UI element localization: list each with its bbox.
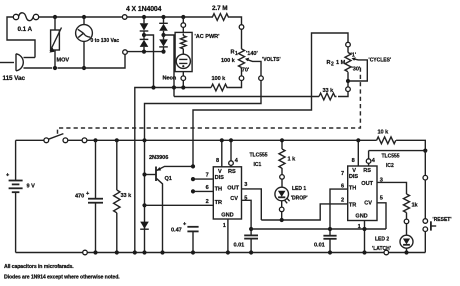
node ground at C2 [191,250,195,254]
terminal R2 bottom [346,87,351,92]
node R2 bottom [346,79,350,83]
node ground at Q1 collector [160,250,164,254]
svg-text:V: V [352,168,356,174]
pin 8 IC1 V+ [216,140,222,167]
note diodes [4,274,120,280]
pin 7 IC1 DIS [193,173,213,179]
wire ground bus y87.5 [135,81,242,253]
svg-text:8: 8 [352,158,355,164]
svg-text:1: 1 [223,223,226,229]
svg-text:Q1: Q1 [165,176,172,182]
node ground at GND1 [226,250,230,254]
svg-text:RS: RS [363,168,371,174]
node AC-bottom at MOV [53,66,57,70]
label 4 X 1N4004 [126,6,162,13]
svg-text:0.1 A: 0.1 A [18,26,33,33]
svg-text:TR: TR [349,203,356,209]
resistor 100 k [211,76,229,91]
node ground at LED2 [404,250,408,254]
varistor MOV [49,17,69,68]
svg-text:TLC555: TLC555 [250,153,268,159]
terminal bridge AC input bottom [123,50,128,55]
resistor R3 33 k left [114,140,133,252]
terminal ground rail right [384,250,389,255]
svg-text:R: R [327,60,331,66]
node ground bus at bridge output [151,85,155,89]
svg-text:100 k: 100 k [212,76,227,82]
svg-text:All capacitors in microfarads.: All capacitors in microfarads. [4,264,74,270]
svg-text:33 k: 33 k [323,88,335,94]
svg-text:IC1: IC1 [254,162,262,168]
node TH1 junction [191,189,195,193]
svg-text:Neon: Neon [163,76,177,82]
terminal LED2 top [404,219,409,224]
wire CV1 bus to IC2 [251,228,386,230]
note capacitors [4,264,74,270]
switch S2 'RESET' pushbutton [423,180,452,253]
resistor 2.7 M [211,5,230,20]
svg-text:2N3906: 2N3906 [149,155,168,161]
resistor R5 10 k [377,130,396,144]
terminal R2 top [346,42,351,47]
LED 1 'DROP' [275,179,308,207]
wire bridge left-mid to ground bus [144,35,154,88]
pin 8 IC2 V+ [352,140,359,166]
pin 4 IC2 RS [366,151,375,166]
node bridge left-top junction [142,15,146,19]
label TLC555 IC2 [382,154,400,170]
svg-text:'AC PWR': 'AC PWR' [195,34,221,40]
node AC-bottom at voltmeter [82,66,86,70]
node ground bus at neon [181,85,185,89]
battery B1 9 V [6,140,35,252]
svg-text:7: 7 [341,171,344,177]
svg-text:'70': '70' [241,68,250,74]
fuse F1 0.1 A [13,13,38,33]
op-amp-timer U1 TLC555 IC1 box [213,167,241,219]
wire R1 wiper line to Q1 base column [145,81,262,253]
node ground at C1 [93,250,97,254]
wiper R2 loop to bottom [350,57,367,81]
svg-text:'VOLTS': 'VOLTS' [262,57,281,63]
diode D1 bridge left-top [140,17,149,35]
svg-text:2.7 M: 2.7 M [212,5,227,12]
terminal neon bottom [163,72,186,88]
svg-text:OUT: OUT [227,185,239,191]
pin 4 IC1 RS [229,140,239,167]
wire bridge bottom rail [127,51,163,53]
svg-text:6: 6 [341,184,344,190]
node ground at GND2 [362,250,366,254]
wire battery to switch [16,139,44,141]
svg-text:100 k: 100 k [221,58,236,64]
node LED1 to OUT1 [280,218,284,222]
node emitter junction [191,164,195,168]
terminal neon top [181,17,186,32]
wire AC bottom rail to bridge [58,54,126,68]
svg-text:1 k: 1 k [288,157,297,163]
svg-text:1 M: 1 M [336,60,346,66]
potentiometer R1 100 k 'VOLTS' [221,29,281,76]
node V+ at 33k [115,138,119,142]
svg-text:CV: CV [364,201,372,207]
node V+ at pin8 IC2 [356,138,360,142]
node V+ at pin4 IC1 [229,138,233,142]
potentiometer R2 1 M 'CYCLES' [327,47,392,87]
pin 6 IC2 TH [330,184,348,236]
wire 33k to R2 bottom terminal [338,92,348,97]
diode D3 bridge right-top [159,17,168,35]
node V+ at R4 [280,138,284,142]
node base tap [142,172,146,176]
svg-text:MOV: MOV [57,58,70,64]
wire bridge right-mid to 33k feed [164,35,175,97]
node DIS1 junction [191,177,195,181]
svg-text:Diodes are 1N914 except where: Diodes are 1N914 except where otherwise … [4,274,120,280]
wire ground rail bottom [16,252,426,254]
node AC-top at MOV [53,15,57,19]
wire V+ rail [87,139,377,141]
node ground bus at 33k feed [172,85,176,89]
terminal ground rail left [83,250,88,255]
svg-text:R: R [231,50,235,56]
transistor Q1 2N3906 [145,155,193,253]
node bridge left-bottom junction [142,50,146,54]
svg-text:115 Vac: 115 Vac [3,75,26,82]
node ground at D5 [142,250,146,254]
svg-text:0.01: 0.01 [234,243,245,249]
label TLC555 IC1 [250,153,268,169]
capacitor C2 0.47 [171,222,199,253]
pin 7 IC2 DIS label [341,171,344,177]
svg-text:5: 5 [244,196,247,202]
pin 5 IC1 CV [242,196,252,229]
diode D4 bridge right-bottom [159,35,168,52]
terminal reset upper [423,151,428,180]
pin 1 IC1 GND [223,219,228,253]
svg-text:0.01: 0.01 [314,243,325,249]
capacitor C3 0.01 [234,229,259,253]
svg-text:10 k: 10 k [378,130,390,136]
resistor R4 1 k LED1 [279,140,296,174]
pin 3 IC2 OUT [377,178,407,194]
terminal LED1 bottom [279,207,284,220]
svg-text:TH: TH [215,187,222,193]
node ground at C4 [328,250,332,254]
pin 5 IC2 CV [377,196,386,229]
node ground at C3 [249,250,253,254]
svg-text:'CYCLES': 'CYCLES' [369,58,392,64]
svg-text:4 X 1N4004: 4 X 1N4004 [126,6,162,13]
svg-text:2: 2 [331,62,334,68]
svg-text:2: 2 [341,197,344,203]
node bridge right-bottom junction [161,50,165,54]
node ground at bridge bus [133,250,137,254]
terminal R1 bottom [239,76,244,81]
svg-text:V: V [218,169,222,175]
plug 115 Vac [0,54,52,82]
svg-text:0 to 130 Vac: 0 to 130 Vac [91,38,120,44]
dashed enclosure remote pots [58,68,361,135]
node V+ at base column [142,138,146,142]
svg-text:GND: GND [221,213,233,219]
switch S1 power [44,134,87,143]
svg-text:LED 1: LED 1 [292,186,306,192]
svg-text:0.47: 0.47 [171,228,182,234]
svg-text:'140': '140' [246,51,258,57]
pin 3 IC1 OUT [242,182,262,220]
wire DC feed to 33k [174,96,319,98]
svg-text:3: 3 [244,182,247,188]
node bridge left-mid [142,33,146,37]
svg-text:CV: CV [230,196,238,202]
svg-text:DIS: DIS [349,174,358,180]
node V+ at 470 cap [93,138,97,142]
svg-text:'RESET': 'RESET' [433,217,452,223]
LED 2 'LATCH' [372,224,413,253]
svg-text:1: 1 [235,51,238,57]
terminal R1 top [239,25,244,30]
svg-text:IC2: IC2 [386,163,394,169]
node ground at R3 [115,250,119,254]
svg-text:TH: TH [349,186,356,192]
node TR1 tap [142,203,146,207]
svg-text:2: 2 [206,199,209,205]
wiper R1 to VOLTS terminal [245,58,261,76]
capacitor C1 470 [75,140,103,252]
resistor R6 1 k LED2 [404,194,419,219]
voltmeter 0 to 130 Vac [76,15,120,68]
node neon tap on AC top rail [181,15,185,19]
svg-text:8: 8 [216,158,219,164]
node V+ at pin8 IC1 [220,138,224,142]
svg-text:'30': '30' [352,67,361,73]
wire OUT1 to TR2 [261,204,347,220]
node GND2 on CV bus [362,227,366,231]
neon lamp assembly 'AC PWR' [175,32,220,71]
diode D2 bridge left-bottom [140,35,149,52]
node bridge right-top junction [161,15,165,19]
node bridge right-mid [161,33,165,37]
svg-text:DIS: DIS [215,175,224,181]
svg-text:5: 5 [380,196,383,202]
wire 2.7M to R1 top [230,17,242,25]
svg-text:'1': '1' [351,53,357,59]
svg-text:GND: GND [355,214,367,220]
terminal bridge AC input top [122,15,127,20]
wire fuse-left to plug [7,17,35,58]
capacitor C4 0.01 [314,236,337,253]
resistor 33 k right [319,88,337,100]
svg-text:470: 470 [75,194,84,200]
pin 6 IC1 TH [193,185,213,191]
node CV1 cap junction [249,227,253,231]
wire bridge top rail [127,16,211,18]
svg-text:RS: RS [228,169,236,175]
terminal LED1 top [280,175,285,180]
svg-text:LED 2: LED 2 [375,237,389,243]
terminal R1 wiper bottom [259,76,264,81]
pin 1 IC2 GND [358,221,365,253]
pin 2 IC2 TR label [341,197,344,203]
wire reset to RS2 [369,150,426,152]
svg-text:1: 1 [358,224,361,230]
svg-text:TR: TR [215,200,222,206]
svg-text:'DROP': 'DROP' [291,196,308,202]
svg-text:6: 6 [206,185,209,191]
svg-text:33 k: 33 k [121,193,133,199]
svg-text:TLC555: TLC555 [382,154,400,160]
svg-text:1k: 1k [412,203,419,209]
svg-text:7: 7 [206,173,209,179]
wire R2 top loop to timing bus [193,33,348,166]
wire 10k to reset column [396,140,425,150]
op-amp-timer U2 TLC555 IC2 box [348,166,377,221]
diode D5 base clamp [140,222,149,230]
svg-text:9 V: 9 V [27,184,36,190]
pin 2 IC1 TR [145,199,214,205]
svg-text:OUT: OUT [361,181,373,187]
svg-text:3: 3 [380,178,383,184]
node TH2 cap on CV bus [328,227,332,231]
wire AC top rail [39,16,122,18]
node reset RS junction [423,149,427,153]
